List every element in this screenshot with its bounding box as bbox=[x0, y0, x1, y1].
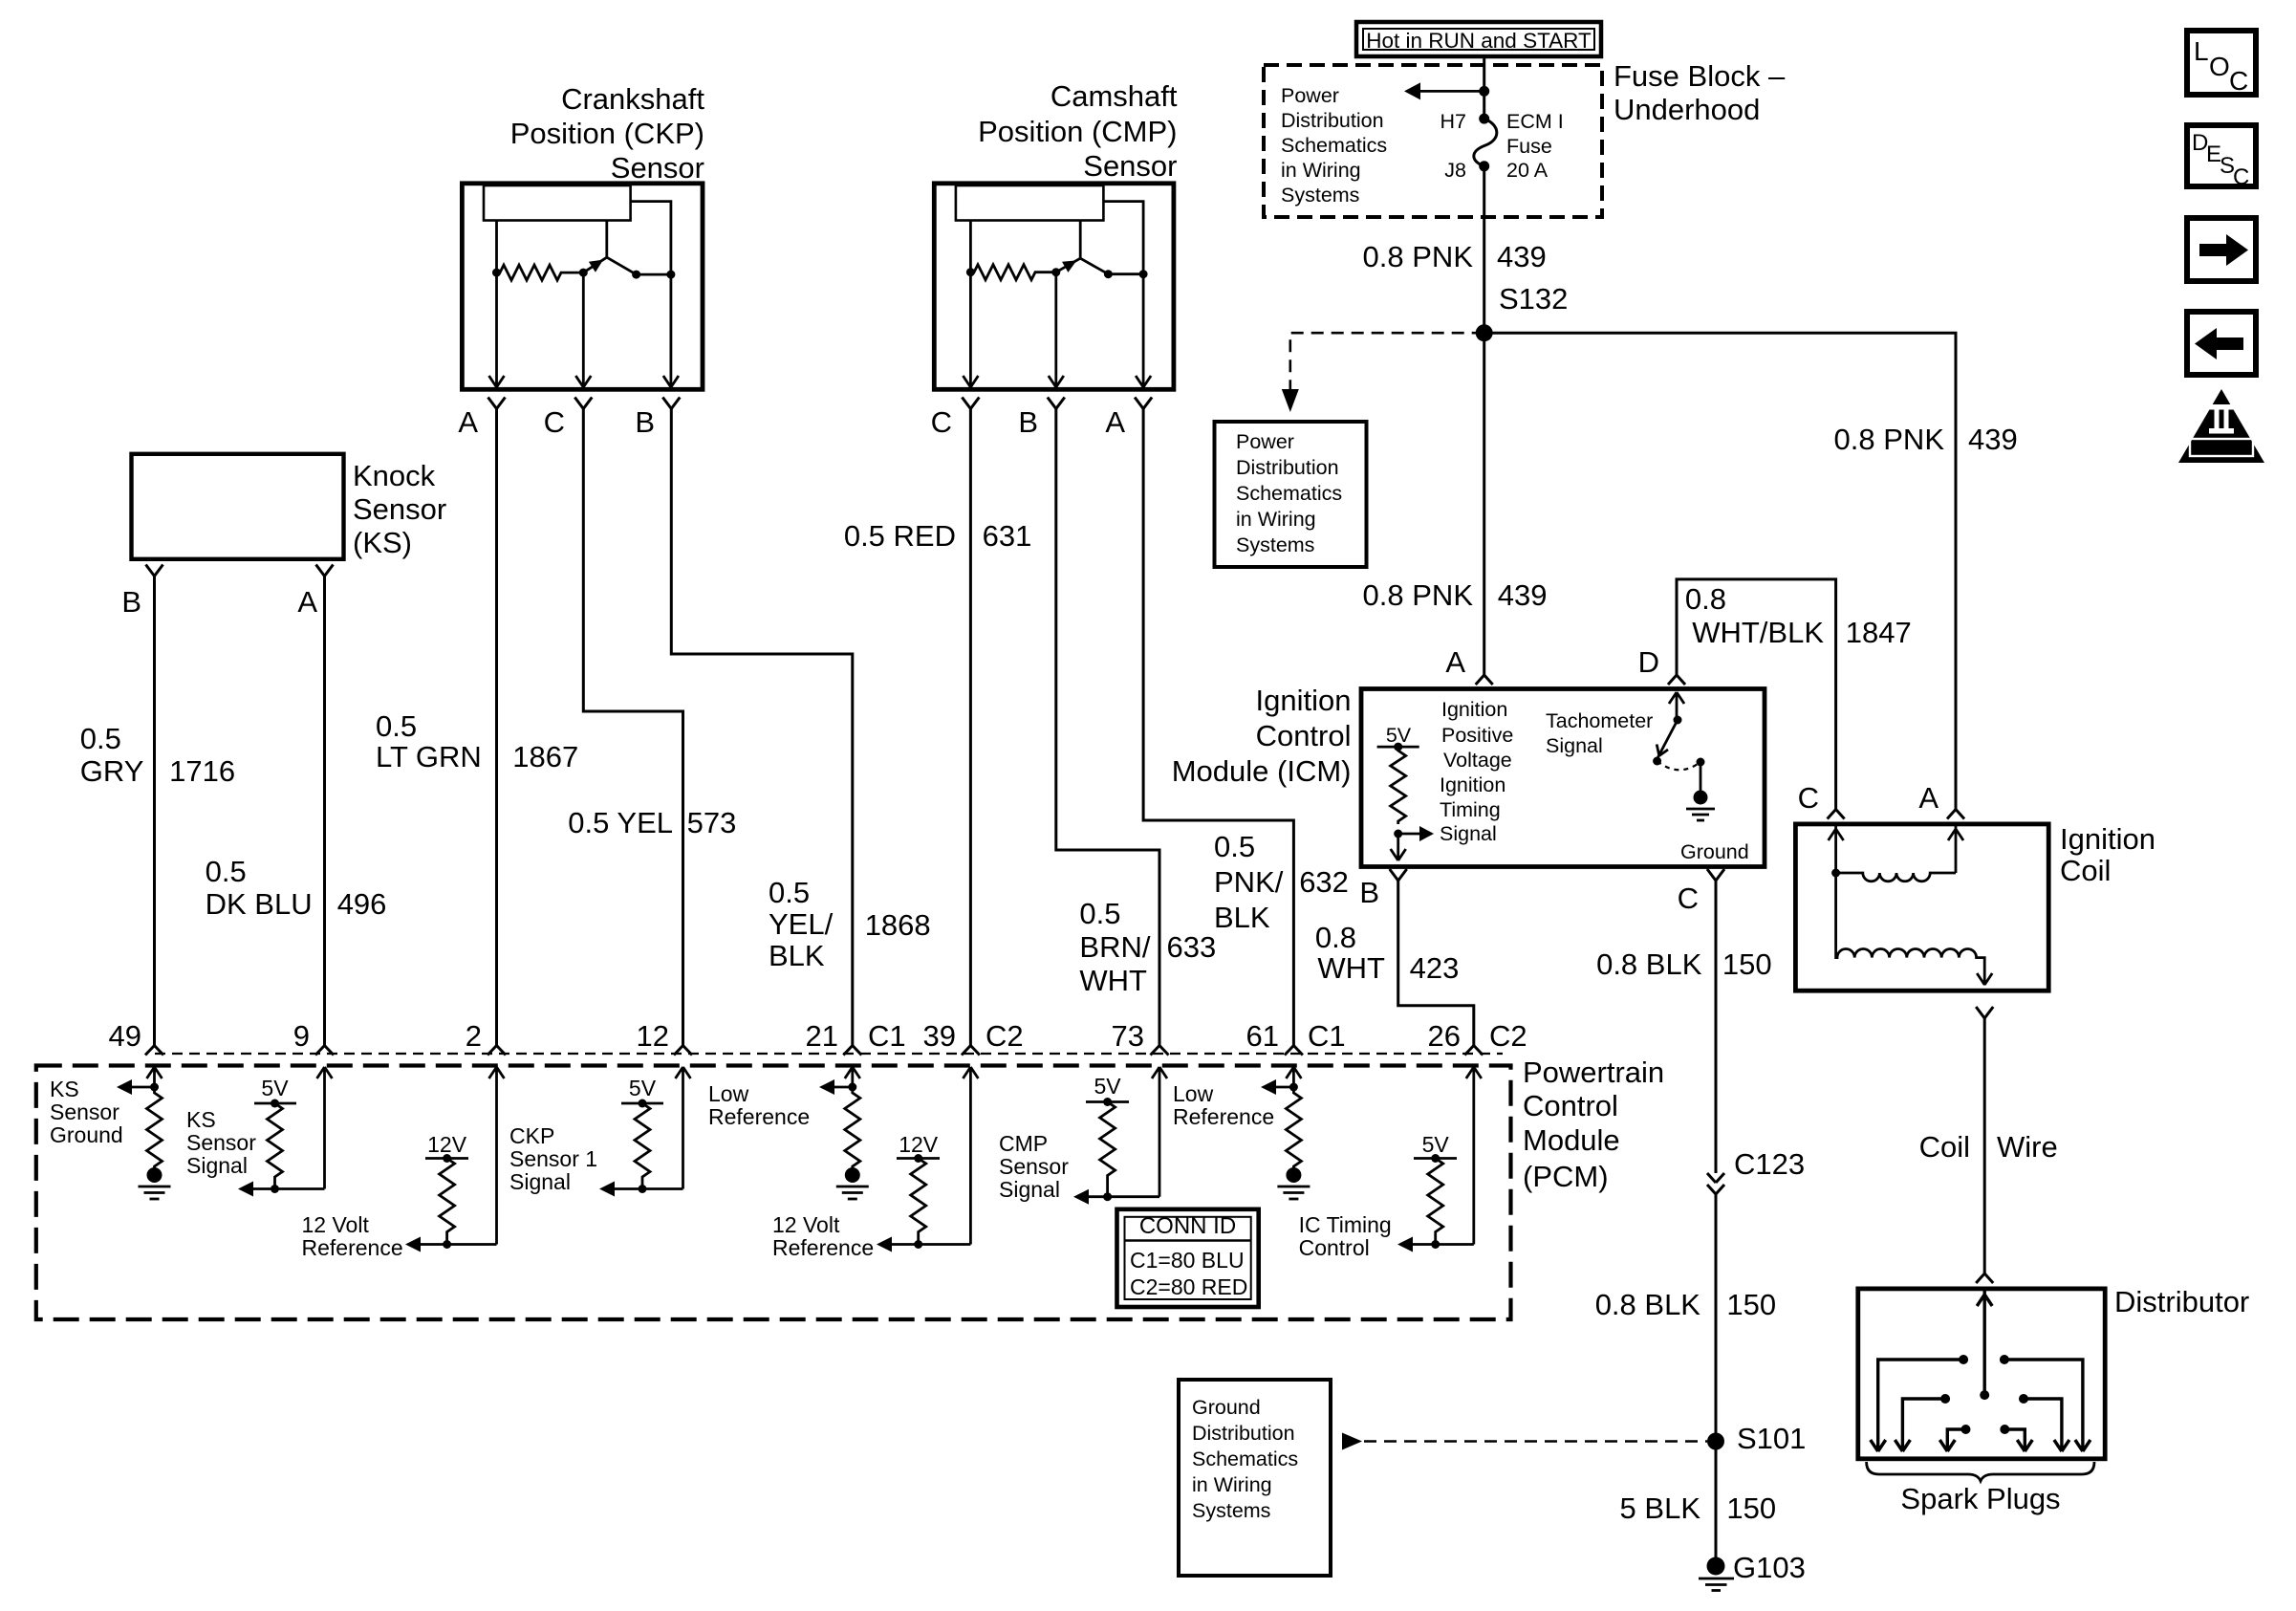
svg-text:(PCM): (PCM) bbox=[1523, 1160, 1609, 1193]
svg-text:5V: 5V bbox=[261, 1076, 289, 1100]
CKP 5V pull-up bbox=[621, 1076, 663, 1193]
spark plug wire 1 bbox=[1871, 1355, 1968, 1451]
svg-text:CMP: CMP bbox=[999, 1131, 1048, 1156]
CMP internal resistor bbox=[970, 265, 1055, 280]
Distributor box bbox=[1858, 1289, 2105, 1459]
svg-text:C2=80 RED: C2=80 RED bbox=[1130, 1274, 1247, 1299]
svg-text:0.8 BLK: 0.8 BLK bbox=[1596, 947, 1702, 981]
svg-text:2: 2 bbox=[466, 1019, 482, 1053]
ICM pin B connector bbox=[1390, 869, 1407, 881]
label 0.5 LT GRN 1867 bbox=[376, 709, 578, 773]
PCM pin 21 internal wire bbox=[845, 1067, 860, 1087]
Knock Sensor label bbox=[353, 459, 446, 559]
wire 5 BLK 150 to G103 bbox=[1715, 1442, 1718, 1558]
svg-text:Schematics: Schematics bbox=[1236, 482, 1342, 505]
svg-text:0.8 PNK: 0.8 PNK bbox=[1834, 423, 1945, 456]
svg-text:0.5: 0.5 bbox=[1214, 830, 1255, 863]
12 Volt Reference label bbox=[302, 1212, 403, 1260]
spark plug wire 5 bbox=[1939, 1425, 1970, 1451]
12 volt reference arrow pin 39 bbox=[877, 1237, 970, 1252]
KS Sensor Ground label bbox=[50, 1077, 123, 1147]
wire 0.5 GRY 1716 (KS B to PCM 49) bbox=[153, 577, 156, 1046]
CKP node A bbox=[492, 269, 501, 277]
label 0.8 PNK 439 at ICM A bbox=[1363, 578, 1548, 612]
svg-text:Distribution: Distribution bbox=[1192, 1422, 1295, 1445]
CKP pin B connector bbox=[662, 398, 680, 409]
svg-text:423: 423 bbox=[1410, 951, 1460, 985]
Ground Distribution reference box bbox=[1179, 1380, 1331, 1576]
svg-text:632: 632 bbox=[1299, 865, 1349, 899]
svg-text:LT GRN: LT GRN bbox=[376, 740, 482, 773]
ICM pin D connector bbox=[1668, 675, 1685, 685]
svg-text:633: 633 bbox=[1167, 930, 1217, 964]
svg-text:C: C bbox=[1798, 781, 1819, 815]
svg-text:1716: 1716 bbox=[169, 754, 235, 788]
svg-text:573: 573 bbox=[687, 806, 737, 839]
12 volt reference arrow bbox=[405, 1237, 497, 1252]
ICM tach driver switch bbox=[1653, 692, 1704, 770]
svg-text:0.5 YEL: 0.5 YEL bbox=[568, 806, 673, 839]
low reference arrow pin 21 bbox=[819, 1079, 853, 1095]
svg-text:Wire: Wire bbox=[1997, 1130, 2058, 1164]
svg-text:5V: 5V bbox=[1422, 1132, 1450, 1157]
forward arrow icon box bbox=[2187, 218, 2256, 281]
12V reference pull-up pin 39 bbox=[897, 1132, 940, 1249]
svg-text:0.8: 0.8 bbox=[1685, 582, 1726, 616]
PCM pin 12 connector bbox=[674, 1046, 692, 1056]
CMP internal wire B bbox=[1049, 272, 1064, 387]
svg-text:39: 39 bbox=[923, 1019, 956, 1053]
rotor center node bbox=[1980, 1390, 1989, 1400]
KS ground resistor bbox=[147, 1087, 162, 1168]
12 Volt Reference label pin 39 bbox=[772, 1212, 874, 1260]
svg-text:0.5: 0.5 bbox=[206, 855, 247, 888]
svg-text:A: A bbox=[1105, 405, 1125, 439]
svg-text:Distribution: Distribution bbox=[1281, 109, 1384, 132]
label 0.5 PNK/BLK 632 bbox=[1214, 830, 1349, 934]
wire 0.5 LT GRN 1867 (CKP A to PCM 2) bbox=[495, 409, 498, 1046]
CKP internal wire C bbox=[575, 272, 591, 387]
svg-text:C: C bbox=[2233, 164, 2249, 190]
svg-text:Control: Control bbox=[1256, 719, 1352, 752]
wire S132 to right then down to coil A bbox=[1484, 333, 1956, 809]
label 0.5 YEL/BLK 1868 bbox=[769, 876, 931, 972]
svg-text:631: 631 bbox=[983, 519, 1032, 553]
spark plug wire 2 bbox=[2000, 1355, 2090, 1451]
svg-text:in Wiring: in Wiring bbox=[1281, 159, 1361, 182]
svg-text:B: B bbox=[635, 405, 655, 439]
PCM pin 39 connector C2 bbox=[962, 1046, 980, 1056]
svg-text:Systems: Systems bbox=[1236, 533, 1314, 556]
label 0.5 BRN/WHT 633 bbox=[1079, 897, 1216, 997]
svg-text:0.5: 0.5 bbox=[80, 722, 121, 755]
spark plug wire 4 bbox=[2019, 1394, 2069, 1451]
KS pin A connector bbox=[316, 565, 334, 577]
spark plugs brace bbox=[1867, 1462, 2094, 1481]
KS sensor ground arrow bbox=[117, 1079, 155, 1095]
CKP internal resistor bbox=[497, 265, 584, 280]
CKP node C bbox=[579, 269, 588, 277]
svg-text:D: D bbox=[1638, 645, 1659, 679]
svg-text:WHT/BLK: WHT/BLK bbox=[1692, 616, 1824, 649]
label 0.5 DK BLU 496 bbox=[206, 855, 387, 921]
wire 0.5 DK BLU 496 (KS A to PCM 9) bbox=[323, 577, 326, 1046]
svg-text:CKP: CKP bbox=[509, 1123, 554, 1148]
svg-text:Module (ICM): Module (ICM) bbox=[1172, 754, 1352, 788]
svg-text:61: 61 bbox=[1246, 1019, 1279, 1053]
PCM pin 21 connector C1 bbox=[843, 1046, 861, 1056]
svg-text:Control: Control bbox=[1299, 1235, 1370, 1260]
svg-text:Schematics: Schematics bbox=[1192, 1448, 1298, 1470]
svg-text:Underhood: Underhood bbox=[1614, 93, 1760, 126]
svg-text:Systems: Systems bbox=[1281, 184, 1359, 207]
CMP sensor signal arrow bbox=[1073, 1189, 1159, 1205]
dashed wire S132 to power distribution reference bbox=[1282, 333, 1484, 412]
svg-text:150: 150 bbox=[1726, 1288, 1776, 1321]
PCM pin 9 internal wire bbox=[317, 1067, 333, 1189]
CKP internal wire A bbox=[489, 221, 505, 388]
low reference arrow pin 61 bbox=[1261, 1079, 1293, 1095]
wire 0.8 WHT/BLK 1847 (ICM D to coil C) bbox=[1677, 579, 1836, 810]
svg-text:439: 439 bbox=[1498, 578, 1548, 612]
wire 0.5 YEL 573 (CKP C to PCM 12) bbox=[583, 409, 682, 1046]
CMP internal wire C bbox=[963, 221, 978, 388]
ICM internal label bbox=[1440, 698, 1513, 845]
svg-text:Schematics: Schematics bbox=[1281, 134, 1387, 157]
label 0.5 RED 631 bbox=[844, 519, 1032, 553]
svg-text:C1: C1 bbox=[868, 1019, 906, 1053]
splice S132 bbox=[1476, 282, 1569, 341]
svg-text:Power: Power bbox=[1236, 430, 1294, 453]
svg-text:Tachometer: Tachometer bbox=[1546, 709, 1653, 732]
KS sensor ground node bbox=[150, 1083, 159, 1092]
ICM wire to pin B bbox=[1391, 834, 1406, 860]
svg-text:Hot in RUN and START: Hot in RUN and START bbox=[1366, 29, 1592, 53]
label 5 BLK 150 bbox=[1620, 1491, 1777, 1525]
label 0.8 BLK 150 upper bbox=[1596, 947, 1772, 981]
Ignition Control Module (ICM) label bbox=[1172, 684, 1352, 788]
PCM pin 26 internal wire bbox=[1466, 1067, 1482, 1245]
svg-text:Sensor: Sensor bbox=[353, 492, 446, 526]
label 0.5 YEL 573 bbox=[568, 806, 736, 839]
svg-text:Ignition: Ignition bbox=[1441, 698, 1507, 721]
CKP pin A connector bbox=[488, 398, 506, 409]
svg-text:H7: H7 bbox=[1440, 110, 1466, 133]
svg-text:5V: 5V bbox=[629, 1076, 657, 1100]
svg-text:Ignition: Ignition bbox=[1256, 684, 1352, 717]
svg-text:A: A bbox=[297, 585, 317, 619]
Coil Wire label bbox=[1919, 1130, 2058, 1164]
svg-text:Reference: Reference bbox=[708, 1104, 810, 1129]
svg-text:DK BLU: DK BLU bbox=[206, 887, 313, 921]
svg-text:5 BLK: 5 BLK bbox=[1620, 1491, 1701, 1525]
svg-text:Distribution: Distribution bbox=[1236, 456, 1339, 479]
svg-text:0.8 BLK: 0.8 BLK bbox=[1595, 1288, 1701, 1321]
CKP sensor 1 signal arrow bbox=[599, 1182, 683, 1197]
svg-text:Low: Low bbox=[1173, 1081, 1214, 1106]
Powertrain Control Module (PCM) label bbox=[1523, 1056, 1664, 1193]
svg-text:12V: 12V bbox=[899, 1132, 939, 1157]
svg-text:Coil: Coil bbox=[1919, 1130, 1970, 1164]
PCM pin 39 internal wire bbox=[963, 1067, 978, 1245]
svg-text:Distributor: Distributor bbox=[2114, 1285, 2249, 1318]
svg-text:0.8 PNK: 0.8 PNK bbox=[1363, 240, 1474, 273]
svg-text:12 Volt: 12 Volt bbox=[772, 1212, 840, 1237]
Fuse Block - Underhood dashed box bbox=[1264, 65, 1602, 217]
CMP Sensor box bbox=[934, 184, 1174, 389]
spark plug wire 3 bbox=[1895, 1394, 1950, 1451]
svg-text:Sensor: Sensor bbox=[999, 1154, 1069, 1179]
svg-text:KS: KS bbox=[186, 1107, 216, 1132]
IC timing 5V pull-up bbox=[1414, 1132, 1457, 1249]
svg-text:BLK: BLK bbox=[1214, 901, 1270, 934]
svg-text:S132: S132 bbox=[1499, 282, 1568, 316]
svg-text:G103: G103 bbox=[1733, 1551, 1806, 1584]
Ignition Coil pin A connector bbox=[1947, 810, 1964, 819]
svg-text:C: C bbox=[931, 405, 952, 439]
KS Sensor Signal label bbox=[186, 1107, 256, 1178]
KS sensor signal arrow bbox=[238, 1182, 325, 1197]
low reference node pin 61 bbox=[1289, 1083, 1298, 1092]
svg-text:in Wiring: in Wiring bbox=[1236, 508, 1316, 531]
Hot in RUN and START box bbox=[1356, 22, 1601, 56]
svg-text:0.5: 0.5 bbox=[376, 709, 417, 743]
svg-text:12 Volt: 12 Volt bbox=[302, 1212, 370, 1237]
svg-text:Reference: Reference bbox=[1173, 1104, 1274, 1129]
svg-text:S101: S101 bbox=[1737, 1422, 1806, 1455]
coil primary input wires with arrows bbox=[1829, 826, 1844, 873]
distributor rotor feed wire bbox=[1977, 1291, 1992, 1395]
svg-text:Ground: Ground bbox=[1680, 840, 1749, 863]
svg-text:ECM I: ECM I bbox=[1506, 110, 1564, 133]
KS pin B connector bbox=[146, 565, 163, 577]
coil primary winding bbox=[1836, 873, 1956, 882]
svg-text:Ground: Ground bbox=[50, 1122, 123, 1147]
label 0.8 WHT/BLK 1847 bbox=[1685, 582, 1912, 649]
wire S132 down to ICM A bbox=[1483, 333, 1485, 675]
svg-text:A: A bbox=[1445, 645, 1465, 679]
Camshaft Position (CMP) Sensor label bbox=[978, 79, 1178, 183]
wire 0.5 BRN/WHT 633 (CMP B to PCM 73) bbox=[1056, 409, 1159, 1046]
svg-text:Sensor: Sensor bbox=[186, 1130, 256, 1155]
svg-text:Sensor 1: Sensor 1 bbox=[509, 1146, 597, 1171]
CKP internal wire B bbox=[631, 202, 671, 275]
Tachometer Signal label bbox=[1546, 709, 1653, 757]
PCM pin 61 internal wire bbox=[1286, 1067, 1301, 1087]
Fuse Block label bbox=[1614, 59, 1786, 126]
svg-text:C123: C123 bbox=[1734, 1147, 1805, 1181]
Ignition Coil box bbox=[1795, 824, 2048, 991]
svg-text:L: L bbox=[2194, 36, 2209, 66]
svg-text:CONN ID: CONN ID bbox=[1139, 1213, 1236, 1239]
svg-text:0.5: 0.5 bbox=[1079, 897, 1120, 930]
Power Distribution reference box bbox=[1215, 422, 1367, 567]
coil wire to distributor bbox=[1983, 1018, 1986, 1274]
svg-text:Signal: Signal bbox=[1440, 822, 1497, 845]
CMP pickup transistor symbol bbox=[1056, 221, 1143, 279]
svg-text:C2: C2 bbox=[986, 1019, 1024, 1053]
Crankshaft Position (CKP) Sensor label bbox=[510, 82, 705, 185]
LOC icon box bbox=[2187, 31, 2256, 96]
svg-text:Knock: Knock bbox=[353, 459, 436, 492]
svg-text:Low: Low bbox=[708, 1081, 749, 1106]
svg-text:Reference: Reference bbox=[772, 1235, 874, 1260]
PCM pin 73 connector bbox=[1151, 1046, 1169, 1056]
svg-text:0.8 PNK: 0.8 PNK bbox=[1363, 578, 1474, 612]
svg-text:496: 496 bbox=[337, 887, 387, 921]
svg-text:1868: 1868 bbox=[865, 908, 931, 942]
coil secondary winding bbox=[1836, 873, 1993, 985]
CKP pin C connector bbox=[574, 398, 592, 409]
svg-text:Signal: Signal bbox=[509, 1169, 571, 1194]
low reference resistor pin 61 bbox=[1286, 1087, 1301, 1168]
svg-text:1867: 1867 bbox=[512, 740, 578, 773]
svg-text:WHT: WHT bbox=[1079, 964, 1147, 997]
svg-text:439: 439 bbox=[1497, 240, 1547, 273]
svg-text:Camshaft: Camshaft bbox=[1051, 79, 1178, 113]
CKP Sensor 1 Signal label bbox=[509, 1123, 597, 1194]
CMP pin C connector bbox=[962, 398, 979, 409]
svg-text:B: B bbox=[1018, 405, 1038, 439]
wire 0.8 PNK 439 from fuse to S132 bbox=[1483, 166, 1485, 333]
12V reference pull-up bbox=[425, 1132, 468, 1249]
CMP 5V pull-up bbox=[1086, 1074, 1129, 1201]
DESC icon box bbox=[2187, 125, 2256, 190]
low reference node pin 21 bbox=[848, 1083, 856, 1092]
CMP Sensor Signal label bbox=[999, 1131, 1069, 1202]
svg-text:20 A: 20 A bbox=[1506, 159, 1549, 182]
wire 0.5 RED 631 (CMP C to PCM 39) bbox=[969, 409, 972, 1046]
svg-text:C: C bbox=[1678, 882, 1699, 915]
svg-text:YEL/: YEL/ bbox=[769, 907, 834, 941]
svg-text:C2: C2 bbox=[1489, 1019, 1527, 1053]
ICM signal node bbox=[1394, 830, 1402, 838]
svg-text:Position (CMP): Position (CMP) bbox=[978, 115, 1177, 148]
svg-text:Signal: Signal bbox=[999, 1177, 1060, 1202]
ICM pin C connector bbox=[1707, 869, 1724, 881]
CKP node B bbox=[666, 271, 675, 279]
ICM pin A connector bbox=[1476, 675, 1493, 685]
svg-text:Spark Plugs: Spark Plugs bbox=[1900, 1482, 2060, 1515]
CMP pin A connector bbox=[1135, 398, 1152, 409]
KS ground symbol bbox=[139, 1167, 171, 1199]
PCM pin 49 internal wire bbox=[147, 1067, 162, 1087]
terminal H7 bbox=[1479, 114, 1489, 124]
svg-text:A: A bbox=[458, 405, 478, 439]
dashed reference wire to S101 bbox=[1342, 1433, 1707, 1450]
svg-text:C1: C1 bbox=[1308, 1019, 1346, 1053]
svg-text:WHT: WHT bbox=[1317, 951, 1385, 985]
svg-text:in Wiring: in Wiring bbox=[1192, 1473, 1272, 1496]
svg-text:Sensor: Sensor bbox=[611, 151, 704, 185]
PCM pin 2 connector bbox=[487, 1046, 506, 1056]
svg-text:Sensor: Sensor bbox=[1083, 149, 1177, 183]
svg-text:0.5 RED: 0.5 RED bbox=[844, 519, 956, 553]
IC Timing Control label bbox=[1299, 1212, 1392, 1260]
svg-text:Voltage: Voltage bbox=[1443, 749, 1512, 772]
svg-text:73: 73 bbox=[1112, 1019, 1144, 1053]
label 0.5 GRY 1716 bbox=[80, 722, 235, 788]
svg-text:Signal: Signal bbox=[186, 1153, 248, 1178]
svg-text:(KS): (KS) bbox=[353, 526, 412, 559]
CMP sensing element bbox=[956, 185, 1104, 221]
svg-text:Ignition: Ignition bbox=[2060, 822, 2155, 856]
terminal J8 bbox=[1479, 161, 1489, 171]
wire 0.8 WHT 423 (ICM B to PCM 26) bbox=[1398, 881, 1474, 1046]
fuse ECM I 20 A bbox=[1474, 119, 1497, 166]
ground symbol pin 61 bbox=[1277, 1167, 1310, 1199]
fuse block note text bbox=[1281, 84, 1387, 207]
wire continues to S101 bbox=[1715, 1194, 1718, 1442]
svg-text:A: A bbox=[1918, 781, 1939, 815]
svg-text:C: C bbox=[2229, 66, 2248, 96]
svg-text:B: B bbox=[121, 585, 141, 619]
wire 0.5 PNK/BLK 632 (CMP A to PCM 61) bbox=[1143, 409, 1293, 1046]
svg-text:21: 21 bbox=[806, 1019, 838, 1053]
CMP node A bbox=[1139, 270, 1148, 278]
ground symbol pin 21 bbox=[836, 1167, 869, 1199]
Knock Sensor (KS) box bbox=[132, 454, 344, 559]
coil node bbox=[1831, 869, 1840, 878]
svg-text:26: 26 bbox=[1428, 1019, 1461, 1053]
svg-text:O: O bbox=[2209, 52, 2230, 81]
svg-text:150: 150 bbox=[1722, 947, 1772, 981]
PCM harness connector line bbox=[155, 1053, 1503, 1055]
svg-text:OBD II: OBD II bbox=[2199, 441, 2243, 457]
svg-text:Fuse: Fuse bbox=[1506, 135, 1552, 158]
svg-text:Control: Control bbox=[1523, 1089, 1618, 1122]
ICM 5V supply bbox=[1377, 724, 1419, 751]
svg-text:439: 439 bbox=[1968, 423, 2018, 456]
svg-text:Sensor: Sensor bbox=[50, 1099, 119, 1124]
svg-text:Module: Module bbox=[1523, 1123, 1620, 1157]
label 0.8 WHT 423 bbox=[1315, 921, 1459, 985]
svg-text:Systems: Systems bbox=[1192, 1499, 1270, 1522]
svg-text:Ground: Ground bbox=[1192, 1396, 1261, 1419]
Low Reference label pin 21 bbox=[708, 1081, 810, 1129]
svg-text:Timing: Timing bbox=[1440, 798, 1501, 821]
PCM pin 61 connector C1 bbox=[1285, 1046, 1303, 1056]
svg-text:C1=80 BLU: C1=80 BLU bbox=[1130, 1248, 1245, 1273]
PCM pin 49 connector bbox=[145, 1046, 163, 1056]
svg-text:Ignition: Ignition bbox=[1440, 773, 1505, 796]
ICM internal ground bbox=[1680, 762, 1749, 863]
svg-text:1847: 1847 bbox=[1846, 616, 1912, 649]
OBD II triangle icon bbox=[2178, 389, 2264, 463]
Ignition Coil label bbox=[2060, 822, 2155, 887]
IC timing control arrow bbox=[1397, 1237, 1474, 1252]
wire from Hot box into fuse block bbox=[1483, 56, 1485, 119]
wire 0.8 BLK 150 (ICM C down) bbox=[1715, 881, 1718, 1173]
label 0.8 PNK 439 right branch bbox=[1834, 423, 2018, 456]
svg-text:5V: 5V bbox=[1094, 1074, 1122, 1099]
wire 0.5 YEL/BLK 1868 (CKP B to PCM 21) bbox=[671, 409, 853, 1046]
svg-text:B: B bbox=[1359, 876, 1379, 909]
Low Reference label pin 61 bbox=[1173, 1081, 1274, 1129]
back arrow icon box bbox=[2187, 312, 2256, 375]
svg-text:150: 150 bbox=[1726, 1491, 1776, 1525]
svg-text:BRN/: BRN/ bbox=[1079, 930, 1150, 964]
KS 5V pull-up bbox=[254, 1076, 296, 1193]
svg-text:Signal: Signal bbox=[1546, 734, 1603, 757]
svg-text:BLK: BLK bbox=[769, 939, 825, 972]
coil secondary output connector bbox=[1976, 1007, 1993, 1018]
svg-text:12V: 12V bbox=[427, 1132, 467, 1157]
svg-text:9: 9 bbox=[293, 1019, 310, 1053]
svg-text:J8: J8 bbox=[1444, 159, 1466, 182]
svg-text:IC Timing: IC Timing bbox=[1299, 1212, 1392, 1237]
label 0.8 BLK 150 lower bbox=[1595, 1288, 1776, 1321]
